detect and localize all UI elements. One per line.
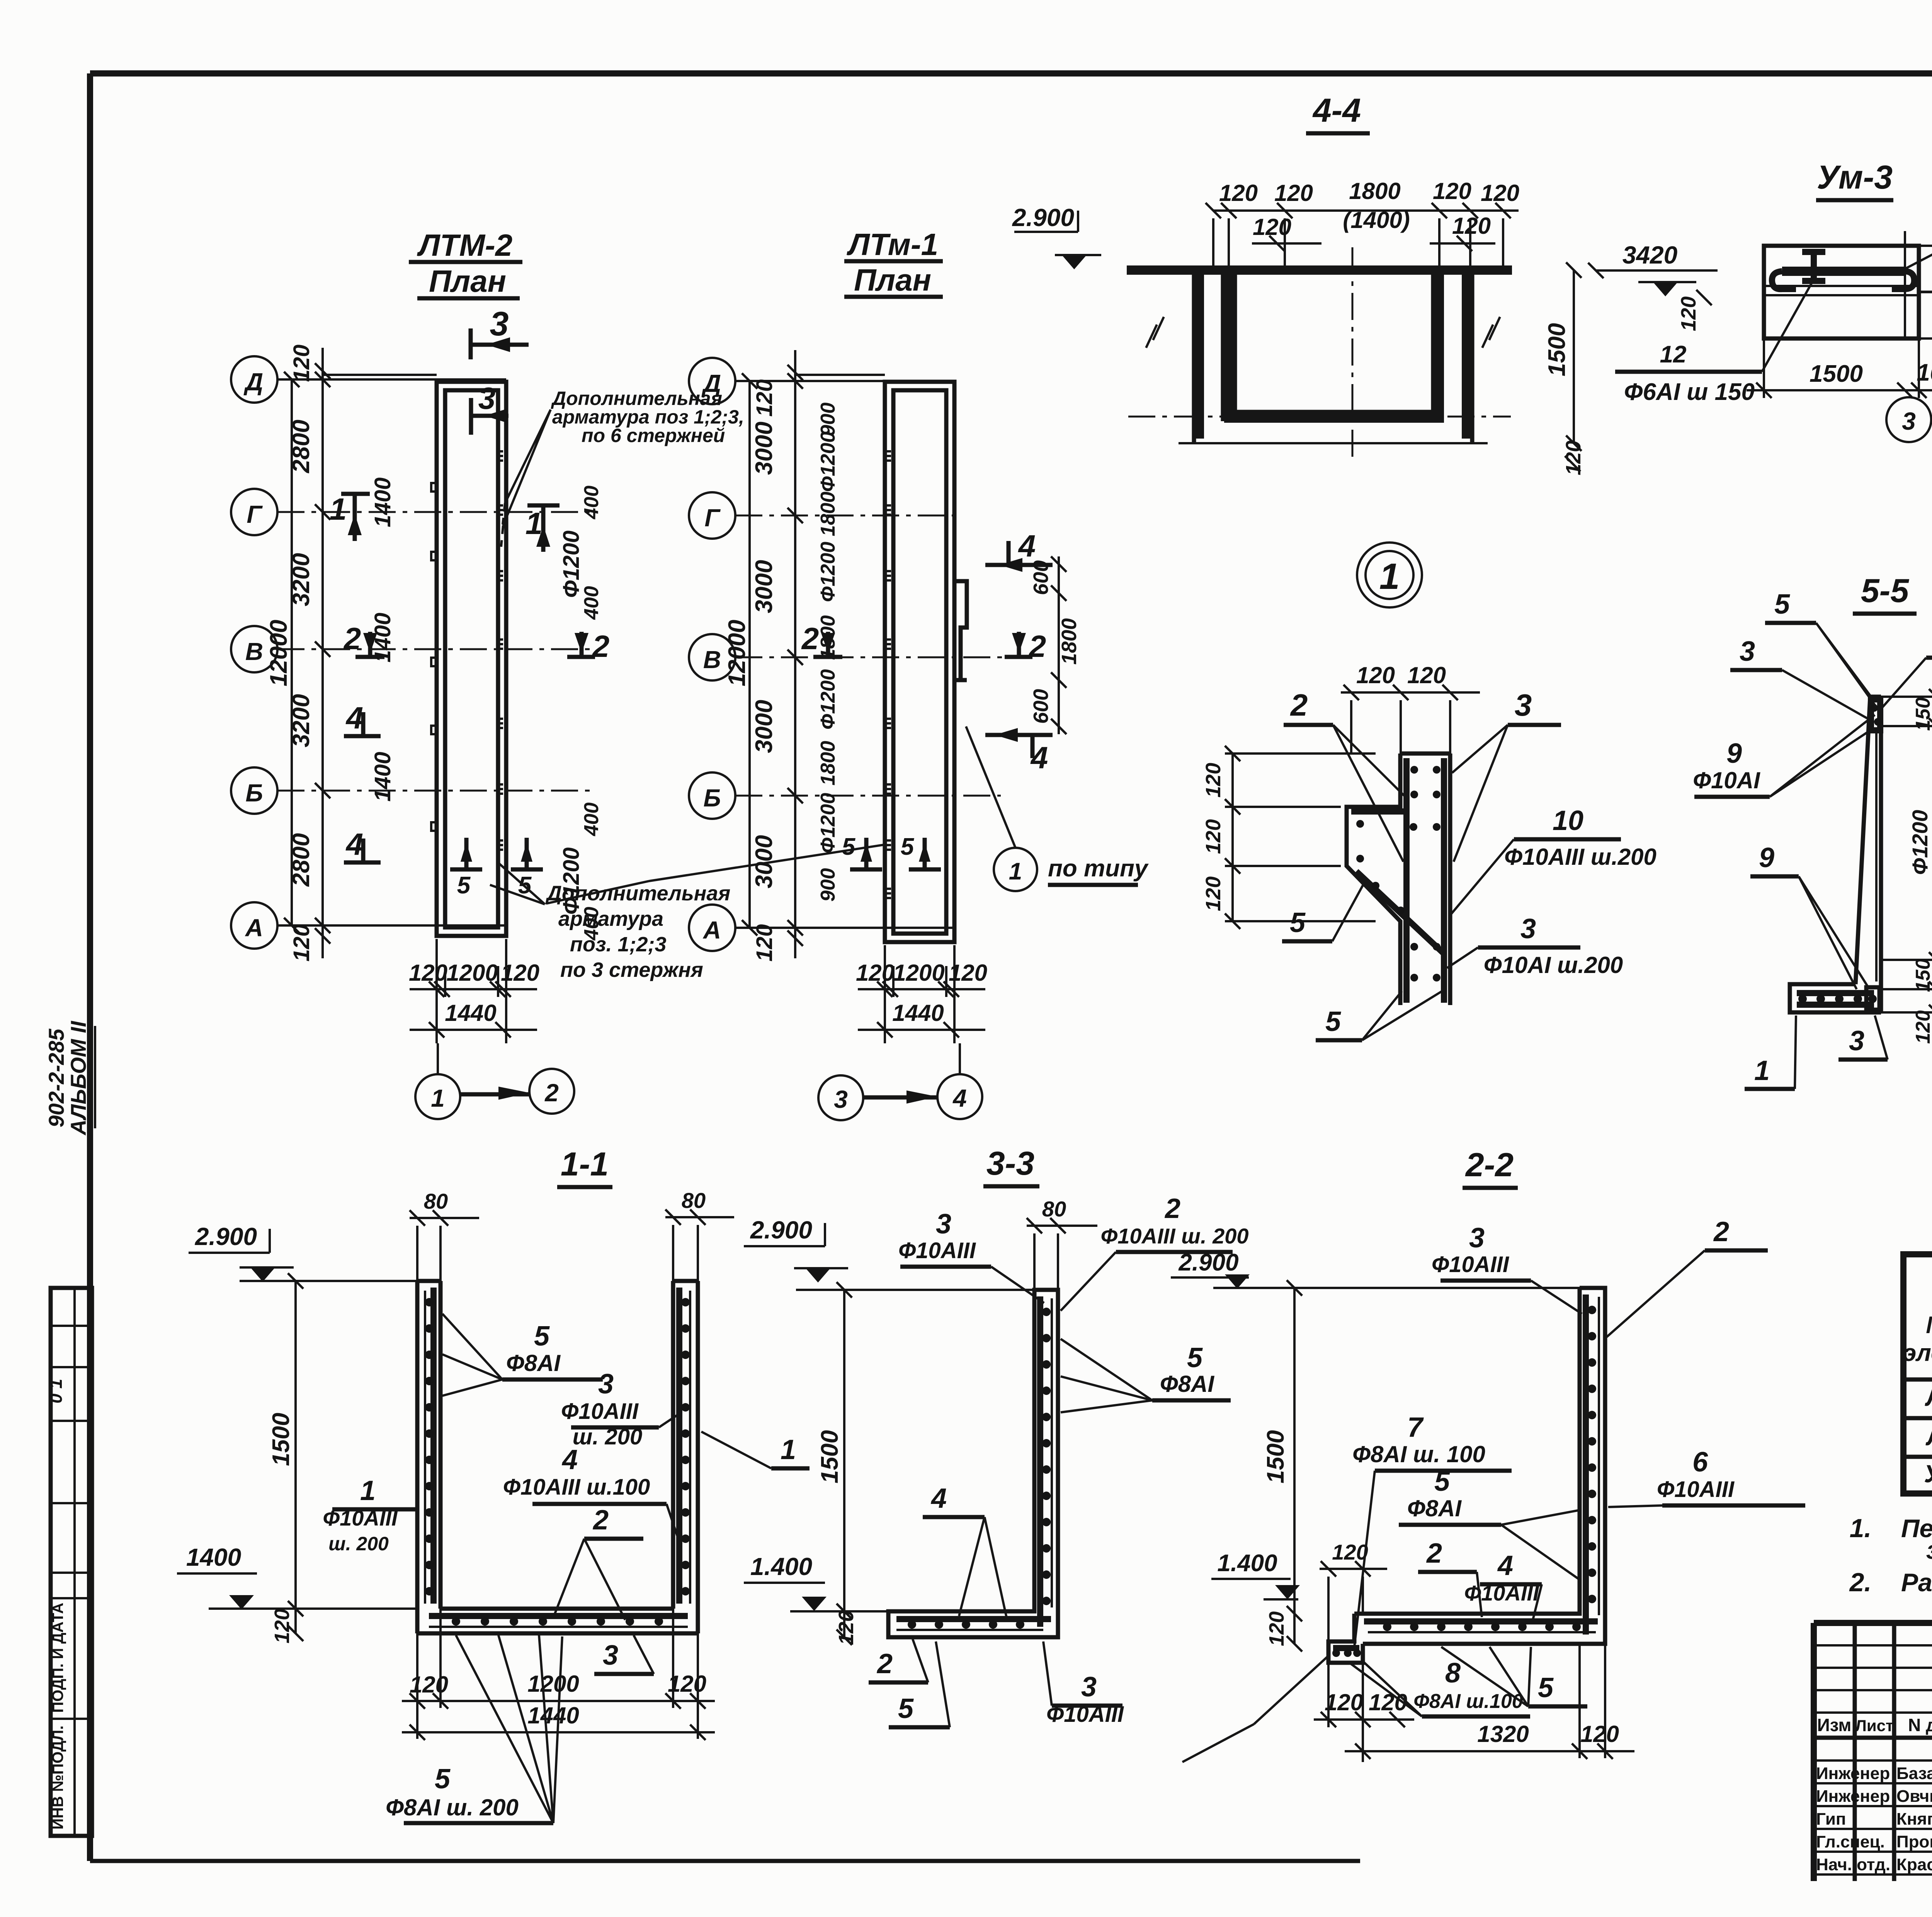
- axis circle A: [231, 902, 277, 949]
- axis dim chain: [321, 348, 324, 958]
- svg-text:1: 1: [431, 1084, 445, 1112]
- bottom dim 1500 100: [1747, 389, 1932, 391]
- svg-text:В: В: [703, 646, 721, 674]
- rebar dots slab: [452, 1617, 460, 1626]
- svg-text:Ф8АI ш. 200: Ф8АI ш. 200: [386, 1795, 519, 1820]
- Um-3 outline: [1764, 246, 1919, 338]
- section mark 5 pair: [850, 838, 882, 869]
- top dim 120 120: [1341, 691, 1480, 694]
- svg-text:3: 3: [1081, 1672, 1097, 1703]
- bottom dims 120 1200 120: [437, 939, 506, 997]
- svg-text:5: 5: [1434, 1466, 1450, 1497]
- section mark 1 left: [341, 494, 370, 541]
- svg-text:1-1: 1-1: [561, 1146, 609, 1183]
- rebar dots: [1410, 766, 1418, 774]
- svg-text:Ф1200: Ф1200: [817, 793, 839, 853]
- svg-text:Гип: Гип: [1816, 1810, 1846, 1829]
- svg-text:3: 3: [1902, 407, 1916, 435]
- section mark 4 upper: [344, 712, 381, 736]
- svg-text:Ф10АIII ш.200: Ф10АIII ш.200: [1504, 844, 1656, 870]
- svg-text:Пронин: Пронин: [1896, 1832, 1932, 1851]
- svg-text:Гл.спец.: Гл.спец.: [1816, 1832, 1885, 1851]
- svg-text:120: 120: [1202, 763, 1225, 798]
- svg-text:10: 10: [1553, 805, 1583, 836]
- svg-text:120: 120: [668, 1671, 706, 1697]
- svg-text:5: 5: [435, 1764, 451, 1795]
- slab dots: [1383, 1623, 1391, 1631]
- svg-text:12000: 12000: [265, 620, 292, 686]
- bottom axis circle 3: [818, 1075, 863, 1120]
- svg-text:1.: 1.: [1850, 1514, 1872, 1543]
- svg-text:5: 5: [842, 833, 856, 860]
- svg-text:3-3: 3-3: [986, 1145, 1034, 1182]
- svg-text:ш. 200: ш. 200: [328, 1533, 389, 1555]
- svg-text:1400: 1400: [370, 752, 395, 801]
- wall and slab outline: [1328, 1288, 1605, 1663]
- axis circle B: [231, 767, 277, 814]
- wall dots: [1588, 1306, 1596, 1314]
- svg-text:80: 80: [424, 1189, 448, 1213]
- svg-text:600: 600: [1029, 689, 1053, 724]
- svg-text:Овчинников: Овчинников: [1896, 1787, 1932, 1806]
- svg-text:Ум-3: Ум-3: [1817, 159, 1893, 196]
- rebar thick lines: [429, 1288, 688, 1616]
- bottom dims: [885, 945, 954, 997]
- svg-text:3: 3: [1520, 913, 1536, 944]
- section 1-1: [177, 1146, 734, 1823]
- axis dim chain 3000: [794, 350, 796, 958]
- svg-text:120: 120: [410, 1672, 448, 1698]
- svg-text:2: 2: [1290, 688, 1308, 722]
- svg-text:1440: 1440: [527, 1703, 579, 1728]
- svg-text:120: 120: [289, 345, 314, 382]
- svg-text:Ф8АI: Ф8АI: [1407, 1495, 1462, 1521]
- witness for 100: [1904, 231, 1906, 338]
- svg-text:1: 1: [1754, 1055, 1770, 1086]
- section mark 1 right: [527, 505, 560, 552]
- svg-text:А: А: [702, 916, 721, 944]
- svg-text:4-4: 4-4: [1312, 92, 1361, 129]
- outer lines: [1814, 1620, 1932, 1626]
- svg-text:1800: 1800: [1349, 178, 1400, 204]
- svg-text:120: 120: [752, 379, 777, 417]
- svg-text:120: 120: [1356, 662, 1395, 688]
- plan LTM-2 outline: [437, 382, 506, 936]
- svg-text:12000: 12000: [724, 620, 750, 686]
- break marks: [1146, 317, 1500, 348]
- svg-text:120: 120: [1202, 876, 1225, 911]
- svg-text:3: 3: [1469, 1223, 1485, 1254]
- svg-text:1440: 1440: [445, 1000, 496, 1026]
- svg-text:900: 900: [817, 403, 839, 436]
- wall dots: [1042, 1308, 1051, 1316]
- bottom dims: [417, 1609, 698, 1739]
- rebar 11 with hooks: [1782, 267, 1904, 276]
- svg-text:1: 1: [330, 492, 347, 526]
- svg-text:2: 2: [592, 1505, 609, 1536]
- svg-text:закладаное мн-6: закладаное мн-6: [1926, 1536, 1932, 1564]
- svg-text:120: 120: [1219, 180, 1258, 206]
- left dim 1500/120: [1293, 1288, 1296, 1644]
- svg-text:1400: 1400: [186, 1543, 241, 1571]
- svg-text:2-2: 2-2: [1465, 1146, 1514, 1184]
- svg-text:120: 120: [1265, 1611, 1288, 1646]
- top stirrup: [1871, 699, 1880, 730]
- svg-text:2.900: 2.900: [1178, 1249, 1238, 1276]
- svg-text:120: 120: [289, 924, 314, 962]
- svg-text:Ф8АI: Ф8АI: [1160, 1371, 1215, 1397]
- svg-text:120: 120: [1912, 1010, 1932, 1044]
- svg-text:Д: Д: [243, 368, 263, 396]
- top dim 80: [1027, 1218, 1097, 1290]
- svg-text:Ф6АI ш 150: Ф6АI ш 150: [1624, 379, 1755, 405]
- svg-text:2: 2: [1028, 629, 1046, 663]
- right dim 1500: [1573, 270, 1575, 443]
- svg-text:Ф10АIII ш.100: Ф10АIII ш.100: [503, 1475, 650, 1500]
- rebar dots left wall: [425, 1298, 434, 1306]
- svg-text:120: 120: [856, 960, 895, 986]
- svg-text:(1400): (1400): [1343, 207, 1410, 233]
- svg-text:4: 4: [1030, 740, 1048, 775]
- svg-text:4: 4: [930, 1483, 947, 1514]
- svg-text:2: 2: [1713, 1216, 1729, 1247]
- svg-text:12: 12: [1660, 341, 1687, 368]
- svg-text:2: 2: [876, 1648, 893, 1679]
- left margin stamp boxes: [46, 1288, 92, 1836]
- frame: [1903, 1254, 1932, 1493]
- axis circle G: [689, 492, 735, 539]
- svg-text:1500: 1500: [268, 1413, 294, 1466]
- inner rebar line: [1875, 732, 1878, 981]
- svg-text:2800: 2800: [288, 833, 315, 887]
- svg-text:Ум - 3: Ум - 3: [1924, 1460, 1932, 1488]
- svg-text:4: 4: [345, 827, 364, 861]
- svg-text:2: 2: [544, 1079, 559, 1107]
- svg-text:120: 120: [1202, 819, 1225, 854]
- svg-text:Ф8АI ш. 100: Ф8АI ш. 100: [1352, 1441, 1485, 1467]
- svg-text:1440: 1440: [892, 1000, 944, 1026]
- svg-text:Ф8АI ш.100: Ф8АI ш.100: [1413, 1690, 1523, 1713]
- plan LTM-2: [231, 228, 887, 1119]
- inner U thick: [1229, 273, 1439, 418]
- svg-text:3: 3: [598, 1369, 614, 1400]
- svg-text:80: 80: [1042, 1197, 1066, 1221]
- svg-text:1: 1: [526, 506, 543, 541]
- section 2-2: [1182, 1146, 1805, 1762]
- section mark 2 left: [813, 632, 842, 657]
- svg-text:3: 3: [1849, 1026, 1864, 1056]
- svg-text:120: 120: [1433, 178, 1471, 204]
- section mark 5 pair bottom: [450, 838, 482, 869]
- svg-text:5: 5: [534, 1321, 550, 1352]
- svg-text:N докум.: N докум.: [1908, 1715, 1932, 1735]
- svg-text:0 1: 0 1: [46, 1379, 66, 1403]
- svg-text:Инженер: Инженер: [1816, 1764, 1890, 1783]
- svg-text:4: 4: [1018, 529, 1036, 563]
- right wall seat notch: [954, 581, 967, 680]
- svg-text:Красавин: Красавин: [1896, 1855, 1932, 1874]
- left grid rows: [1814, 1645, 1932, 1713]
- svg-text:Ф10АIII: Ф10АIII: [561, 1399, 639, 1424]
- rebar thick: [1333, 1294, 1598, 1648]
- svg-text:1.400: 1.400: [750, 1553, 812, 1580]
- section mark 3 inside plan top: [471, 398, 509, 435]
- svg-text:120: 120: [1253, 214, 1291, 240]
- svg-text:400: 400: [580, 586, 603, 620]
- svg-text:120: 120: [949, 960, 987, 986]
- svg-text:1200: 1200: [527, 1671, 579, 1697]
- svg-text:элемента: элемента: [1903, 1340, 1932, 1366]
- bottom dims 1320 120: [1345, 1644, 1634, 1759]
- svg-text:Г: Г: [704, 504, 721, 532]
- svg-text:5: 5: [1325, 1006, 1341, 1037]
- svg-text:5-5: 5-5: [1861, 572, 1909, 609]
- dim 120 over step: [1320, 1561, 1387, 1641]
- axis lines: [735, 380, 954, 382]
- svg-text:2.900: 2.900: [750, 1216, 812, 1244]
- svg-text:А: А: [245, 914, 263, 942]
- notes: [1849, 1514, 1932, 1597]
- section mark 4 upper: [985, 541, 1053, 565]
- svg-text:3: 3: [490, 304, 509, 343]
- section mark 3 above plan: [471, 328, 529, 359]
- svg-text:Марка: Марка: [1926, 1312, 1932, 1339]
- svg-text:В: В: [245, 638, 263, 665]
- section 5-5: [1693, 572, 1932, 1089]
- detail node 1: [1357, 543, 1422, 607]
- svg-text:по типу: по типу: [1048, 855, 1149, 882]
- svg-text:2: 2: [801, 621, 819, 656]
- svg-text:Княгиничев: Княгиничев: [1896, 1810, 1932, 1829]
- svg-text:ПОДП. И ДАТА: ПОДП. И ДАТА: [49, 1603, 66, 1713]
- svg-text:120: 120: [1274, 180, 1313, 206]
- svg-text:1200: 1200: [446, 960, 498, 986]
- svg-text:Инженер: Инженер: [1816, 1787, 1890, 1806]
- svg-text:1500: 1500: [1544, 323, 1570, 376]
- element Um-3: [1747, 159, 1932, 442]
- section mark 4 lower: [985, 735, 1053, 758]
- svg-text:2.: 2.: [1849, 1568, 1872, 1597]
- svg-text:120: 120: [1677, 296, 1700, 331]
- svg-text:2: 2: [343, 621, 361, 656]
- bottom lines: [1179, 442, 1488, 444]
- top dim row 1: [1213, 209, 1519, 212]
- svg-text:арматура: арматура: [558, 907, 663, 930]
- svg-text:9: 9: [1726, 738, 1742, 769]
- wall outline: [1790, 697, 1881, 1012]
- svg-text:2800: 2800: [288, 420, 315, 473]
- svg-text:100: 100: [1917, 359, 1932, 386]
- svg-text:Лист: Лист: [1855, 1716, 1893, 1735]
- overall dim 12000: [748, 381, 751, 928]
- svg-text:2: 2: [1164, 1193, 1180, 1224]
- svg-text:120: 120: [752, 924, 777, 962]
- top dim row 2: [1252, 242, 1495, 245]
- svg-text:1: 1: [360, 1475, 376, 1506]
- svg-text:3: 3: [1515, 688, 1532, 722]
- axis circle V: [231, 626, 277, 672]
- axis circle V: [689, 634, 735, 680]
- svg-text:План: План: [854, 263, 931, 297]
- section mark 2 left: [355, 632, 384, 657]
- svg-text:Д: Д: [701, 369, 721, 397]
- svg-text:Ф10АI ш.200: Ф10АI ш.200: [1484, 952, 1623, 978]
- svg-text:3000: 3000: [751, 560, 777, 613]
- bottom axis circle 4: [937, 1074, 982, 1119]
- svg-text:2.900: 2.900: [1012, 204, 1074, 231]
- left dim 1500: [843, 1290, 845, 1637]
- bottom dims 120 120: [1314, 1663, 1414, 1762]
- section mark 4 lower: [344, 839, 381, 862]
- svg-text:1200: 1200: [893, 960, 944, 986]
- svg-text:400: 400: [580, 803, 603, 837]
- svg-text:3420: 3420: [1622, 241, 1677, 269]
- top dim 80 left: [410, 1210, 479, 1281]
- bottom axis circle 1: [415, 1074, 460, 1119]
- left dims 120x3: [1231, 754, 1234, 921]
- svg-text:3000: 3000: [751, 700, 777, 753]
- svg-text:Ф10АIII: Ф10АIII: [898, 1238, 976, 1263]
- node circle 3: [1886, 397, 1931, 442]
- svg-text:Б: Б: [703, 784, 721, 812]
- svg-text:120: 120: [409, 960, 447, 986]
- left margin album text: 902-2-285 ALBOM II: [44, 1021, 95, 1136]
- bottom axis circle 2: [529, 1069, 574, 1114]
- svg-text:3: 3: [936, 1209, 951, 1240]
- svg-text:Ф1200: Ф1200: [817, 542, 839, 602]
- svg-text:120: 120: [835, 1610, 858, 1645]
- slab dots: [908, 1620, 916, 1629]
- L wall outline: [888, 1290, 1058, 1637]
- svg-text:7: 7: [1407, 1412, 1424, 1443]
- section 3-3: [701, 1145, 1580, 1727]
- svg-text:Ф10АIII ш. 200: Ф10АIII ш. 200: [1100, 1224, 1248, 1248]
- svg-text:5: 5: [901, 833, 915, 860]
- svg-text:Ф8АI: Ф8АI: [506, 1350, 561, 1376]
- footing stirrup and dots: [1797, 993, 1874, 1005]
- svg-text:80: 80: [682, 1188, 706, 1213]
- svg-text:5: 5: [898, 1693, 914, 1724]
- svg-text:120: 120: [501, 960, 539, 986]
- svg-text:Ф1200: Ф1200: [817, 669, 839, 730]
- svg-text:3000: 3000: [751, 422, 777, 475]
- svg-text:120: 120: [1325, 1689, 1363, 1715]
- axis circle G: [231, 489, 277, 535]
- svg-text:120: 120: [1332, 1540, 1368, 1564]
- svg-text:4: 4: [561, 1444, 578, 1475]
- axis circle D: [231, 356, 277, 403]
- overall dim 12000: [291, 379, 293, 925]
- right vertical dims 600 1800 600: [1058, 556, 1060, 734]
- svg-text:1320: 1320: [1477, 1721, 1529, 1747]
- svg-text:Ф1200: Ф1200: [1908, 810, 1932, 875]
- svg-text:3: 3: [478, 381, 496, 415]
- wire between circles: [863, 1095, 937, 1100]
- svg-text:3: 3: [603, 1640, 618, 1671]
- svg-text:План: План: [429, 264, 506, 298]
- rebar hatch marks on walls: [497, 451, 503, 850]
- svg-text:9: 9: [1759, 842, 1774, 873]
- wall notches: [431, 483, 437, 831]
- svg-text:6: 6: [1692, 1447, 1708, 1478]
- svg-text:по 6 стержней: по 6 стержней: [582, 425, 725, 446]
- svg-text:5: 5: [1187, 1342, 1203, 1373]
- svg-text:400: 400: [580, 486, 603, 520]
- svg-text:120: 120: [270, 1609, 294, 1643]
- svg-text:3000: 3000: [751, 835, 777, 888]
- svg-text:150: 150: [1912, 697, 1932, 731]
- svg-text:1: 1: [1009, 858, 1022, 885]
- title block: [1814, 1623, 1932, 1890]
- svg-text:поз. 1;2;3: поз. 1;2;3: [570, 933, 667, 956]
- rebar hatch marks: [885, 451, 891, 898]
- svg-text:2: 2: [1426, 1538, 1442, 1569]
- outline: [1347, 754, 1450, 1005]
- rebar thick: [896, 1296, 1051, 1627]
- section 4-4: [1012, 92, 1812, 475]
- svg-text:4: 4: [1497, 1550, 1513, 1581]
- svg-text:Г: Г: [247, 500, 263, 528]
- svg-text:Ф10АI: Ф10АI: [1693, 767, 1760, 793]
- svg-text:3: 3: [834, 1085, 848, 1113]
- rebar dots right wall: [681, 1298, 690, 1306]
- svg-text:1400: 1400: [370, 477, 395, 527]
- svg-text:Изм: Изм: [1817, 1715, 1852, 1735]
- section mark 2 right: [567, 632, 595, 657]
- po tipu leader: [994, 848, 1037, 891]
- svg-text:Ф1200: Ф1200: [817, 432, 839, 492]
- svg-text:Нач. отд.: Нач. отд.: [1816, 1855, 1890, 1874]
- section mark 2 right: [1005, 632, 1032, 657]
- axis circle B: [689, 772, 735, 819]
- svg-text:2.900: 2.900: [195, 1223, 257, 1250]
- svg-text:5: 5: [1538, 1672, 1554, 1703]
- svg-text:1500: 1500: [1810, 361, 1863, 387]
- svg-text:3: 3: [1740, 636, 1755, 667]
- axis lines: [277, 378, 506, 381]
- svg-text:1800: 1800: [817, 492, 839, 536]
- vyborka stali table: [1903, 1215, 1932, 1493]
- svg-text:600: 600: [1029, 560, 1053, 595]
- plan LTM-1 outline: [885, 382, 954, 942]
- svg-text:8: 8: [1445, 1658, 1461, 1689]
- svg-text:5: 5: [457, 872, 471, 899]
- svg-text:4: 4: [345, 701, 364, 735]
- detail of wall junction: [1202, 662, 1656, 1040]
- left dim 1500: [294, 1281, 297, 1633]
- top dim 80 right: [665, 1209, 734, 1281]
- wall verticals: [1194, 270, 1472, 443]
- svg-text:1400: 1400: [370, 612, 395, 662]
- plan LTM-1: [689, 227, 1149, 1120]
- svg-text:Базанов: Базанов: [1896, 1764, 1932, 1783]
- thick rebar lines: [1403, 758, 1410, 1003]
- svg-text:2: 2: [592, 629, 610, 663]
- axis circle D: [689, 358, 735, 404]
- svg-text:Ф10АIII: Ф10АIII: [1432, 1252, 1510, 1277]
- svg-text:120: 120: [1452, 213, 1491, 239]
- svg-text:4: 4: [952, 1084, 967, 1112]
- svg-text:1500: 1500: [1262, 1430, 1289, 1483]
- svg-text:5: 5: [1774, 589, 1790, 620]
- svg-text:Ф10АIII: Ф10АIII: [1657, 1477, 1735, 1502]
- axis circle A: [689, 905, 735, 951]
- svg-text:ЛТм-1: ЛТм-1: [847, 227, 938, 262]
- svg-text:Размер в скобках относится к Л: Размер в скобках относится к ЛТм-2: [1901, 1568, 1932, 1597]
- top slab line: [1127, 265, 1512, 275]
- svg-text:120: 120: [1580, 1721, 1619, 1747]
- svg-text:900: 900: [817, 868, 839, 902]
